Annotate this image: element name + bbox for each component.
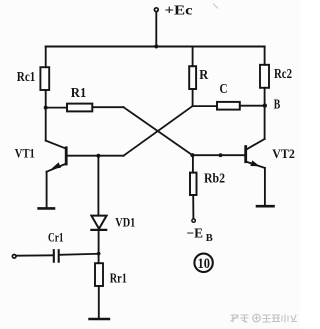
transistor Q VT1 base bar	[65, 148, 68, 164]
junction dot VT2 base / Rb2	[190, 153, 194, 157]
wire Rc2 bottom to node B	[264, 88, 266, 106]
transistor VT1 emitter lead with arrow	[47, 164, 67, 172]
wire node B down to VT2 collector	[264, 106, 266, 139]
supply terminal +Ec	[154, 8, 158, 12]
stray scan mark	[214, 4, 218, 8]
svg-text:10: 10	[198, 256, 211, 272]
svg-text:B: B	[274, 97, 281, 112]
wire Cr1 to junction	[60, 254, 99, 255]
svg-text:Rc2: Rc2	[274, 67, 292, 82]
wire R bottom lead	[192, 89, 194, 106]
transistor VT2 emitter lead with arrow	[246, 162, 265, 169]
wire cross-coupling diagonal to VT2 base	[124, 107, 193, 155]
wire supply drop	[155, 12, 157, 47]
resistor Rr1	[95, 263, 103, 286]
junction dot VD1 branch	[96, 154, 100, 158]
junction dot supply/top rail	[154, 44, 158, 48]
ground VT1	[39, 207, 54, 210]
resistor Rb2	[190, 173, 197, 195]
wire VD1 cathode drop	[98, 230, 100, 254]
ground Rr1	[90, 318, 109, 321]
figure number 10 circled	[194, 254, 212, 272]
wire Rr1 bottom drop	[98, 286, 100, 319]
wire left rail drop to Rc1	[45, 47, 47, 68]
svg-text:C: C	[220, 82, 228, 97]
ground VT2	[257, 205, 274, 208]
wire right rail drop to Rc2	[264, 47, 266, 65]
wire R1 left lead	[46, 107, 67, 109]
terminal -EB	[192, 219, 195, 222]
svg-text:R1: R1	[71, 86, 87, 101]
wire top rail	[46, 46, 265, 48]
wire cross-coupling diagonal to R/C node	[124, 106, 193, 156]
svg-text:VT2: VT2	[272, 146, 295, 161]
resistor Rc1	[40, 67, 49, 90]
svg-text:VT1: VT1	[15, 146, 35, 161]
node B junction dot	[263, 103, 267, 107]
svg-text:+Ec: +Ec	[165, 3, 193, 18]
wire VT2 collector lead	[246, 139, 265, 150]
wire C left lead	[193, 105, 217, 107]
wire VT1 base lead	[66, 155, 123, 157]
junction dot Cr1/Rr1	[97, 252, 101, 256]
junction dot on VT2 base wire	[219, 153, 223, 157]
wire input to Cr1	[17, 254, 54, 256]
wire VT2 base lead	[193, 154, 246, 156]
svg-text:B: B	[206, 232, 214, 244]
svg-text:Rc1: Rc1	[17, 70, 36, 85]
diode VD1	[91, 216, 106, 229]
wire C right lead	[240, 105, 265, 107]
terminal input	[12, 254, 16, 258]
node A collector VT1 junction dot	[44, 106, 48, 110]
svg-text:−E: −E	[187, 226, 204, 241]
wire VT2 emitter drop	[264, 168, 266, 206]
capacitor Cr1	[53, 250, 55, 262]
transistor Q VT2 base bar	[244, 147, 247, 162]
svg-text:Rb2: Rb2	[204, 172, 225, 187]
wire R1 right lead	[92, 106, 123, 108]
wire Rb2 top lead	[192, 155, 194, 172]
resistor R1	[67, 104, 92, 112]
resistor Rc2	[260, 65, 269, 88]
wire Rr1 top lead	[98, 254, 100, 264]
resistor R	[189, 66, 196, 89]
capacitor C (box style)	[217, 102, 240, 110]
svg-text:Rr1: Rr1	[110, 272, 127, 287]
watermark	[231, 314, 297, 322]
svg-text:VD1: VD1	[115, 215, 135, 230]
svg-text:R: R	[199, 68, 209, 83]
svg-text:Cr1: Cr1	[48, 229, 64, 244]
wire VT1 emitter drop	[46, 172, 48, 209]
wire VD1 branch drop	[97, 156, 99, 216]
wire Rb2 bottom lead	[192, 195, 194, 218]
wire R top lead	[192, 47, 194, 67]
wire Rc1 bottom to collector node	[45, 90, 47, 141]
wire VT1 collector lead	[46, 141, 66, 149]
